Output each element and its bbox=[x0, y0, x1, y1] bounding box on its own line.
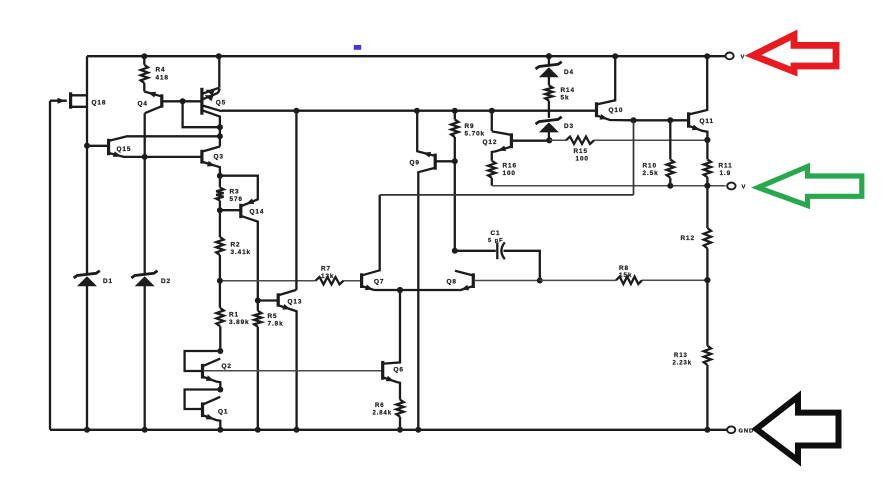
resistor R10 2.5k bbox=[669, 120, 671, 185]
svg-text:Q7: Q7 bbox=[374, 279, 384, 286]
resistor R12 bbox=[706, 186, 708, 280]
node D3 anode junction bbox=[546, 137, 552, 143]
svg-text:5k: 5k bbox=[561, 95, 570, 102]
svg-text:Q1: Q1 bbox=[218, 409, 228, 416]
VIN red arrow bbox=[753, 35, 836, 72]
resistor R14 5k bbox=[548, 76, 550, 118]
svg-text:R3: R3 bbox=[230, 189, 240, 196]
transistor Q5 (dual emitter) bbox=[218, 56, 220, 87]
node ground rail / Q1 emitter bbox=[217, 427, 223, 433]
node Q15 base junction bbox=[84, 143, 90, 149]
svg-text:D1: D1 bbox=[103, 278, 113, 285]
node ground rail / Q9 collector bbox=[415, 427, 421, 433]
node R10 bottom on output line bbox=[667, 183, 673, 189]
svg-text:R1: R1 bbox=[229, 311, 239, 318]
svg-text:3.41k: 3.41k bbox=[231, 249, 252, 256]
transistor Q15 bbox=[87, 145, 108, 147]
node R4 top on supply rail bbox=[141, 53, 147, 59]
transistor Q8 bbox=[472, 273, 475, 288]
svg-text:2.84k: 2.84k bbox=[373, 411, 393, 417]
transistor Q18 bbox=[50, 100, 67, 102]
wire Q4/Q5 base to collector column bbox=[183, 101, 220, 127]
svg-text:R8: R8 bbox=[619, 265, 629, 272]
svg-text:Q15: Q15 bbox=[117, 146, 132, 153]
node blue highlight mark bbox=[354, 45, 361, 50]
svg-text:V: V bbox=[741, 55, 746, 61]
svg-text:R14: R14 bbox=[561, 87, 575, 94]
resistor R16 100 bbox=[488, 161, 495, 178]
transistor Q13 bbox=[295, 111, 297, 290]
node ground rail / R13 bottom bbox=[704, 427, 710, 433]
svg-text:13k: 13k bbox=[321, 273, 334, 280]
transistor Q11 bbox=[634, 119, 688, 121]
transistor Q7 bbox=[360, 273, 363, 288]
node gain rail / Q12 collector bbox=[489, 108, 495, 114]
node Q15 collector junction bbox=[217, 133, 223, 139]
wire second-left vertical (top rail to ground) bbox=[86, 56, 88, 430]
svg-text:15k: 15k bbox=[619, 272, 632, 279]
transistor Q4 bbox=[144, 92, 161, 97]
svg-text:2.5k: 2.5k bbox=[643, 170, 659, 177]
svg-text:R12: R12 bbox=[681, 235, 695, 242]
node Q11 emitter junction bbox=[704, 137, 710, 143]
svg-text:R9: R9 bbox=[465, 123, 475, 130]
svg-text:R16: R16 bbox=[503, 162, 517, 169]
svg-text:418: 418 bbox=[156, 74, 169, 81]
resistor R8 15k bbox=[616, 277, 642, 284]
svg-text:GND: GND bbox=[739, 429, 755, 435]
svg-text:Q3: Q3 bbox=[214, 154, 224, 161]
node ground rail / R5 bottom bbox=[255, 427, 261, 433]
svg-text:2.23k: 2.23k bbox=[673, 360, 693, 366]
node ground rail / R6 bottom bbox=[397, 427, 403, 433]
svg-text:R5: R5 bbox=[268, 313, 278, 320]
VOUT green arrow bbox=[758, 167, 862, 206]
svg-text:R7: R7 bbox=[321, 265, 331, 272]
svg-text:Q9: Q9 bbox=[410, 159, 420, 166]
node Q15 emitter / D2 column junction bbox=[142, 154, 148, 160]
svg-text:Q2: Q2 bbox=[222, 363, 232, 370]
node top rail / D4 bbox=[546, 53, 552, 59]
transistor Q6 bbox=[381, 361, 384, 380]
svg-text:R15: R15 bbox=[574, 148, 588, 155]
transistor Q2 bbox=[185, 351, 221, 371]
wire output node line (R16 bottom to VOUT) bbox=[492, 185, 726, 187]
wire Q2 base to Q6 base bbox=[204, 370, 382, 372]
svg-text:100: 100 bbox=[576, 156, 589, 163]
node R3 bottom (Q14 base) bbox=[217, 207, 223, 213]
resistor R11 1.9 bbox=[706, 140, 708, 186]
svg-text:Q11: Q11 bbox=[700, 118, 714, 125]
svg-text:Q13: Q13 bbox=[288, 299, 303, 306]
transistor Q12 bbox=[491, 111, 493, 132]
svg-text:Q4: Q4 bbox=[138, 101, 148, 108]
node R11 bottom / VOUT node bbox=[704, 183, 710, 189]
node ground rail / Q13 emitter bbox=[294, 427, 300, 433]
node Q4-Q5 base tie bbox=[180, 98, 186, 104]
diode D1 bbox=[77, 276, 97, 286]
wire Q7-Q8 emitter tie bbox=[374, 289, 459, 291]
wire bottom ground rail bbox=[50, 429, 727, 431]
node top rail / Q5 emitter bbox=[216, 53, 222, 59]
svg-text:R11: R11 bbox=[719, 163, 733, 170]
svg-text:5.70k: 5.70k bbox=[465, 131, 486, 138]
svg-text:D4: D4 bbox=[564, 69, 574, 76]
resistor R1 3.89k bbox=[219, 281, 222, 351]
node Q2 emitter / Q1 collector junction bbox=[217, 387, 223, 393]
wire top supply rail bbox=[87, 55, 726, 57]
svg-text:Q10: Q10 bbox=[609, 107, 624, 114]
resistor R9 5.70k bbox=[454, 111, 456, 251]
node VOUT terminal bbox=[727, 183, 735, 190]
svg-text:Q5: Q5 bbox=[216, 100, 226, 107]
node Q10 emitter / Q11 base bbox=[630, 117, 636, 123]
resistor R7 13k bbox=[316, 277, 344, 284]
svg-text:R2: R2 bbox=[231, 241, 241, 248]
svg-text:C1: C1 bbox=[491, 230, 501, 237]
wire gain-stage rail (Q5 collector to Q10 base) bbox=[222, 110, 596, 112]
svg-text:Q6: Q6 bbox=[394, 367, 404, 374]
node ground rail / D1 anode bbox=[84, 427, 90, 433]
node tail current junction bbox=[397, 287, 403, 293]
node Q5 base-collector tie bbox=[217, 124, 223, 130]
wire Q12 base to Q11 emitter bbox=[549, 139, 707, 141]
resistor R5 7.8k bbox=[257, 301, 259, 430]
node VIN terminal bbox=[726, 53, 734, 60]
node Q2 collector junction bbox=[217, 348, 223, 354]
resistor R6 2.84k bbox=[396, 400, 403, 417]
svg-text:Q8: Q8 bbox=[447, 279, 457, 286]
node Q9 base junction bbox=[452, 158, 458, 164]
wire error-amp input line / node R2-R1 junction bbox=[220, 280, 361, 282]
svg-text:R6: R6 bbox=[375, 403, 384, 409]
node ground rail / D2 anode bbox=[142, 427, 148, 433]
node top rail / Q11 collector bbox=[704, 53, 710, 59]
node gain rail / Q9 emitter bbox=[414, 108, 420, 114]
svg-text:7.8k: 7.8k bbox=[268, 320, 284, 327]
resistor R2 3.41k bbox=[219, 210, 221, 281]
svg-text:V: V bbox=[742, 184, 747, 190]
resistor R3 576 bbox=[216, 188, 223, 201]
node R12/R8 junction bbox=[704, 277, 710, 283]
transistor Q1 bbox=[185, 390, 221, 410]
node GND terminal bbox=[727, 426, 735, 433]
svg-text:R10: R10 bbox=[643, 163, 657, 170]
resistor R4 418 bbox=[143, 56, 145, 91]
node R3 top (Q3 emitter) bbox=[217, 173, 223, 179]
svg-text:Q12: Q12 bbox=[483, 139, 498, 146]
transistor Q3 bbox=[200, 150, 203, 164]
diode D2 bbox=[144, 113, 146, 430]
node C1 right on feedback line bbox=[537, 278, 543, 284]
capacitor C1 5pF bbox=[455, 250, 496, 252]
wire Q10 emitter to error amp output bbox=[380, 120, 634, 195]
svg-text:100: 100 bbox=[503, 170, 516, 177]
node gain rail / R9 top bbox=[452, 108, 458, 114]
svg-text:R13: R13 bbox=[674, 353, 688, 359]
wire feedback line (Q8 base to R12/R13 node) bbox=[540, 279, 708, 281]
resistor R15 100 bbox=[566, 137, 594, 144]
svg-text:D2: D2 bbox=[161, 278, 171, 285]
node Q13 base junction bbox=[255, 298, 261, 304]
node C1 left (Q8 collector) bbox=[452, 248, 458, 254]
wire left outer vertical bbox=[49, 101, 51, 430]
diode D4 bbox=[548, 56, 550, 64]
transistor Q10 bbox=[595, 102, 598, 117]
node R10 top bbox=[667, 117, 673, 123]
node top rail / Q10 collector bbox=[612, 53, 618, 59]
svg-text:5 pF: 5 pF bbox=[488, 238, 504, 244]
svg-text:3.89k: 3.89k bbox=[229, 319, 250, 326]
svg-text:Q14: Q14 bbox=[250, 208, 265, 215]
svg-text:D3: D3 bbox=[564, 123, 574, 130]
resistor R13 2.23k bbox=[706, 280, 708, 430]
diode D3 bbox=[539, 122, 559, 132]
GND black arrow bbox=[756, 397, 838, 461]
svg-text:1.9: 1.9 bbox=[720, 170, 732, 177]
svg-text:R4: R4 bbox=[156, 66, 166, 73]
transistor Q14 bbox=[220, 176, 258, 206]
transistor Q9 bbox=[434, 154, 437, 170]
node gain rail / Q13 collector bbox=[293, 108, 299, 114]
svg-text:576: 576 bbox=[230, 196, 243, 203]
svg-text:Q18: Q18 bbox=[92, 99, 107, 106]
